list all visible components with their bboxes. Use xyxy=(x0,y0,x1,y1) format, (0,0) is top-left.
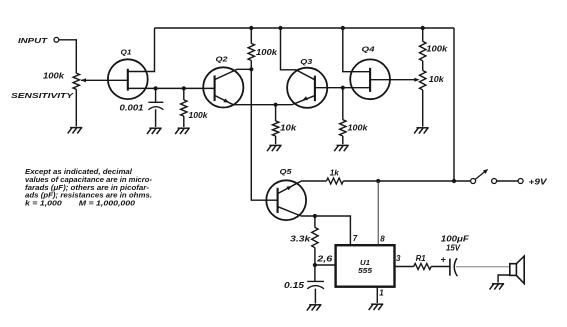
label 0.001 xyxy=(120,104,145,113)
transistor Q1 body xyxy=(108,59,148,99)
ground under C2 xyxy=(307,305,322,311)
svg-text:Q3: Q3 xyxy=(300,57,313,66)
svg-text:INPUT: INPUT xyxy=(18,36,49,45)
Q2 emitter lead xyxy=(215,95,234,104)
Q5 emitter lead xyxy=(278,181,301,193)
resistor R1 xyxy=(414,264,432,270)
node rail / Q3 collector xyxy=(278,26,282,30)
capacitor C1 0.001 xyxy=(148,88,163,127)
svg-text:3.3k: 3.3k xyxy=(290,234,311,243)
ground under speaker xyxy=(490,284,505,290)
node pin 2,6 xyxy=(313,263,317,267)
resistor R7 100k xyxy=(420,28,426,61)
ground under C1 xyxy=(147,128,162,134)
svg-text:R1: R1 xyxy=(416,254,427,263)
wire Q3 base to divider node xyxy=(315,87,343,89)
svg-text:Q1: Q1 xyxy=(121,47,132,56)
svg-text:+: + xyxy=(441,254,446,264)
label 10k R8 xyxy=(429,75,444,84)
resistor R4 100k xyxy=(248,28,254,69)
node Q3 base / Q4 source / R6 xyxy=(341,86,345,90)
potentiometer R8 10k body xyxy=(420,61,426,127)
wire pin 1 to ground xyxy=(376,287,378,303)
Q3 collector lead xyxy=(281,28,315,80)
svg-text:Q5: Q5 xyxy=(280,167,293,176)
node 3.3k top xyxy=(313,214,317,218)
label Q1 xyxy=(121,47,132,56)
Q5 collector lead xyxy=(278,207,301,216)
svg-text:Q4: Q4 xyxy=(362,44,376,53)
svg-text:values of capacitance are in m: values of capacitance are in micro- xyxy=(25,177,153,184)
wire R9 to switch xyxy=(343,180,470,182)
wire rail to Q4 drain xyxy=(343,28,370,72)
ground under pot R2 xyxy=(68,128,83,134)
wire Q4 gate to pot R8 wiper xyxy=(370,78,420,82)
ground under R8 xyxy=(414,128,429,134)
svg-text:2,6: 2,6 xyxy=(316,254,333,263)
capacitor C3 100uF plates xyxy=(450,258,457,276)
wire Q1 source line to Q2 base xyxy=(128,87,215,89)
wire pin 8 to supply node xyxy=(377,181,379,245)
node Q2 base / R3 xyxy=(182,86,186,90)
wire speaker return to ground xyxy=(498,275,510,283)
label 15V xyxy=(446,244,461,253)
svg-text:0.001: 0.001 xyxy=(120,104,145,113)
wire Q5 emitter to R9 xyxy=(301,180,327,182)
resistor R5 10k xyxy=(272,105,278,145)
op-amp U1 555 box xyxy=(336,245,395,287)
label SENSITIVITY xyxy=(11,91,74,100)
resistor R9 1k xyxy=(327,178,344,184)
capacitor C2 0.15 xyxy=(307,265,324,304)
label pin 7 xyxy=(353,234,358,243)
svg-text:100k: 100k xyxy=(426,45,448,54)
svg-text:100μF: 100μF xyxy=(441,235,470,244)
node pin8 supply xyxy=(376,179,380,183)
label 0.15 xyxy=(284,281,305,290)
input terminal J1 xyxy=(54,37,59,42)
svg-text:k = 1,000 M = 1,000,000: k = 1,000 M = 1,000,000 xyxy=(25,201,135,208)
label U1 xyxy=(360,258,370,267)
wire pins 2,6 to U1 xyxy=(315,264,336,266)
label C3 plus xyxy=(441,254,446,264)
svg-text:15V: 15V xyxy=(446,244,461,253)
label 555 xyxy=(358,266,373,275)
label pins 2,6 xyxy=(316,254,333,263)
note text block xyxy=(25,169,153,207)
transistor Q3 body xyxy=(287,68,327,108)
node rail / R7 top xyxy=(421,26,425,30)
label 100k R7 xyxy=(426,45,448,54)
node rail / R4 top xyxy=(249,26,253,30)
svg-text:7: 7 xyxy=(353,234,358,243)
wire C3 to speaker xyxy=(456,266,510,268)
node Q1 source / C1 xyxy=(154,86,158,90)
wire input to pot R2 top xyxy=(59,40,77,73)
wire pin 3 to R1 xyxy=(395,266,414,268)
label 3.3k xyxy=(290,234,311,243)
label pin 3 xyxy=(396,254,401,263)
switch S1 throw xyxy=(492,179,497,184)
svg-text:100k: 100k xyxy=(256,48,278,57)
ground under R6 xyxy=(334,145,349,151)
wire switch to battery terminal xyxy=(497,180,518,182)
potentiometer R2 100k body xyxy=(73,73,79,89)
label R1 xyxy=(416,254,427,263)
label 100uF xyxy=(441,235,470,244)
label Q3 xyxy=(300,57,313,66)
speaker SPKR xyxy=(510,256,524,283)
svg-text:ads (pF); resistances are in o: ads (pF); resistances are in ohms. xyxy=(25,193,152,200)
wire pot R2 to ground xyxy=(75,89,77,126)
node rail / Q4 drain xyxy=(341,26,345,30)
label +9V xyxy=(529,177,549,187)
wire Q1 drain to top rail xyxy=(128,28,155,72)
wire Q5 collector to pin7 xyxy=(301,216,350,245)
transistor Q4 body xyxy=(350,59,390,99)
svg-text:100k: 100k xyxy=(189,111,208,120)
ground under R5 xyxy=(267,145,282,151)
wire Q4 source to node xyxy=(343,87,370,89)
label Q4 xyxy=(362,44,376,53)
svg-text:Except as indicated, decimal: Except as indicated, decimal xyxy=(25,169,133,176)
wire pot wiper to Q1 gate xyxy=(81,78,128,82)
label pin 1 xyxy=(379,289,384,298)
label 100k R3 xyxy=(189,111,208,120)
svg-text:10k: 10k xyxy=(429,75,444,84)
svg-text:100k: 100k xyxy=(43,72,65,81)
svg-text:0.15: 0.15 xyxy=(284,281,305,290)
resistor R3 100k xyxy=(181,88,187,127)
svg-text:farads (μF); others are in pic: farads (μF); others are in picofar- xyxy=(25,185,150,192)
ground under R3 xyxy=(175,128,190,134)
label 1k R9 xyxy=(330,168,339,177)
switch S1 pole xyxy=(471,169,489,184)
svg-text:555: 555 xyxy=(358,266,373,275)
transistor Q2 body xyxy=(203,67,243,107)
ground under pin 1 xyxy=(369,304,384,310)
wire Q2 emitter to Q3 emitter xyxy=(233,104,292,106)
svg-text:+9V: +9V xyxy=(529,177,549,187)
svg-text:1k: 1k xyxy=(330,168,339,177)
label 100k R6 xyxy=(348,124,368,133)
wire Q2 collector down to Q5 base xyxy=(251,69,277,200)
battery terminal xyxy=(518,179,523,184)
wire rail right drop to switch line xyxy=(453,28,455,181)
label 100k R4 xyxy=(256,48,278,57)
label 10k R5 xyxy=(280,124,297,133)
Q2 collector lead xyxy=(215,69,252,79)
label pin 8 xyxy=(380,234,385,243)
resistor R6 100k xyxy=(340,88,346,145)
svg-text:SENSITIVITY: SENSITIVITY xyxy=(11,91,74,100)
svg-text:Q2: Q2 xyxy=(216,54,229,63)
Q3 emitter lead xyxy=(292,96,315,105)
label 100k pot xyxy=(43,72,65,81)
label INPUT xyxy=(18,36,49,45)
svg-text:8: 8 xyxy=(380,234,385,243)
node rail drop / supply line xyxy=(452,179,456,183)
node emitter line / R5 xyxy=(274,103,278,107)
svg-text:10k: 10k xyxy=(280,124,297,133)
svg-text:1: 1 xyxy=(379,289,384,298)
resistor R10 3.3k xyxy=(312,216,318,265)
top supply rail xyxy=(155,27,455,29)
label Q2 xyxy=(216,54,229,63)
label Q5 xyxy=(280,167,293,176)
svg-text:100k: 100k xyxy=(348,124,368,133)
transistor Q5 body xyxy=(266,180,306,220)
wire R1 to C3 xyxy=(431,266,450,268)
node Q2 collector xyxy=(249,67,253,71)
svg-text:3: 3 xyxy=(396,254,401,263)
